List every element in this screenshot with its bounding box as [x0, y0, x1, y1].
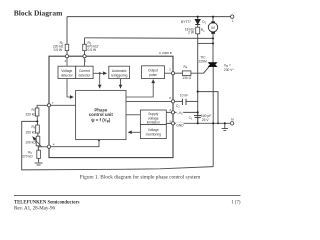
svg-text:4: 4 — [53, 142, 55, 146]
wire: chain top to pin 7 — [37, 105, 47, 108]
svg-text:Voltage: Voltage — [61, 69, 72, 73]
svg-text:BYT77: BYT77 — [181, 20, 191, 24]
resistor R3 470k — [83, 44, 87, 50]
block supply voltage limitation — [140, 110, 166, 125]
phase control unit text — [89, 107, 114, 123]
svg-text:retriggering: retriggering — [111, 73, 128, 77]
svg-text:8: 8 — [169, 96, 171, 100]
wire PCU to output pulse feedback — [126, 80, 153, 97]
svg-text:GND: GND — [176, 123, 184, 127]
block texts — [61, 69, 161, 137]
pin numbers — [52, 59, 172, 147]
svg-text:2 W: 2 W — [188, 31, 195, 35]
svg-text:C1: C1 — [189, 116, 193, 121]
wire: GND rail to N terminal — [175, 122, 231, 124]
pin 8 right C2 — [171, 100, 174, 103]
junction dot on detector wire — [99, 72, 101, 74]
wire: -Vs pin into supply box — [166, 111, 171, 113]
resistor R5 chain bottom — [37, 150, 41, 158]
wire: C-rail tap to N-branch — [198, 92, 218, 124]
svg-text:0.5 W: 0.5 W — [88, 48, 97, 52]
pin stub to voltage detector — [66, 58, 68, 66]
terminal L — [231, 15, 234, 18]
wire: R4 to triac gate — [191, 67, 209, 74]
svg-text:6: 6 — [170, 108, 172, 112]
potentiometer wiper arrow — [33, 137, 42, 147]
svg-text:R1: R1 — [201, 28, 205, 33]
wire left pin 7 into PCU — [51, 104, 76, 106]
IC internal wiring — [51, 58, 172, 147]
motor M — [208, 21, 217, 34]
svg-text:pulse: pulse — [149, 73, 157, 77]
svg-text:Block Diagram: Block Diagram — [14, 8, 63, 17]
svg-text:150 kΩ: 150 kΩ — [25, 130, 36, 134]
svg-text:ψ = f (Vφ): ψ = f (Vφ) — [91, 117, 111, 123]
svg-text:C2: C2 — [176, 104, 180, 109]
pin 3 top — [65, 55, 68, 58]
wire current detector to automatic retriggering — [93, 72, 107, 74]
pin 1 top — [83, 55, 86, 58]
wire: chain segment R6 to pot — [37, 133, 39, 136]
footer rule — [14, 194, 241, 196]
svg-text:detector: detector — [79, 73, 92, 77]
wire PCU to supply voltage limitation — [126, 114, 140, 116]
resistor R4 130R gate — [182, 71, 191, 76]
pin stub to current detector — [84, 58, 86, 66]
wire: R5 to ground — [38, 158, 40, 162]
wire: R1 bottom to motor node — [198, 42, 213, 44]
svg-text:Rev. A1, 28-May-96: Rev. A1, 28-May-96 — [14, 207, 56, 212]
wire: R1 down to C-rail and GND rail — [197, 34, 199, 124]
svg-text:R4: R4 — [184, 65, 188, 70]
wire: C2 right to C-rail — [186, 100, 198, 102]
label -Vs on wire — [177, 110, 184, 114]
svg-text:L: L — [232, 19, 234, 23]
svg-text:D1: D1 — [202, 20, 206, 25]
terminal N — [230, 122, 233, 125]
svg-text:10 nF: 10 nF — [180, 94, 188, 98]
pin 7 left — [47, 104, 50, 107]
IC U2008B outer box — [49, 56, 173, 157]
wire pin 4 up into PCU bottom — [51, 140, 99, 147]
wire: R3 bottom stub to pin — [84, 51, 86, 55]
diode D1 BYT77 — [195, 20, 200, 25]
svg-text:1: 1 — [85, 59, 87, 63]
resistor R2 220k — [35, 27, 199, 158]
svg-text:220 kΩ: 220 kΩ — [25, 112, 36, 116]
svg-text:U 2008 B: U 2008 B — [159, 51, 172, 55]
svg-text:N: N — [231, 117, 234, 121]
wire: D1 top stub — [197, 17, 199, 20]
label GND on wire — [176, 123, 184, 127]
resistor R1 18k — [196, 27, 200, 34]
svg-text:R6: R6 — [31, 125, 35, 130]
svg-text:M: M — [211, 25, 214, 30]
svg-text:Current: Current — [79, 69, 90, 73]
svg-text:230 V~: 230 V~ — [224, 68, 235, 72]
svg-text:0.5 W: 0.5 W — [54, 48, 63, 52]
ground symbol below R5 — [35, 163, 43, 165]
capacitor C2 10nF plates — [182, 99, 186, 105]
wire: C1 top stub — [197, 112, 199, 115]
svg-text:limitation: limitation — [147, 120, 160, 124]
wire: motor top stub — [212, 17, 214, 22]
svg-text:130 Ω: 130 Ω — [182, 76, 191, 80]
block voltage monitoring — [140, 125, 166, 139]
wire: pot bottom node — [38, 146, 47, 147]
wire PCU to C2 pin — [126, 100, 171, 102]
svg-text:2: 2 — [169, 68, 171, 72]
wire: bottom bus (slightly tilted scan) — [22, 121, 214, 169]
svg-text:5: 5 — [170, 119, 172, 123]
wire: R2 top branch — [66, 17, 68, 45]
block output pulse — [142, 66, 165, 79]
wire: chain segment R7 to R6 — [36, 116, 38, 125]
svg-text:1 (7): 1 (7) — [231, 201, 241, 206]
svg-text:detector: detector — [61, 73, 74, 77]
svg-text:25 V: 25 V — [202, 118, 210, 122]
svg-text:3: 3 — [64, 59, 66, 63]
svg-text:TELEFUNKEN Semiconductors: TELEFUNKEN Semiconductors — [14, 201, 80, 206]
wire: R3 vertical — [84, 38, 86, 44]
resistor R6 chain mid — [36, 125, 40, 133]
svg-text:Automatic: Automatic — [112, 69, 127, 73]
wire: ground stub at N — [224, 123, 226, 128]
wire: C2 pin wire — [175, 100, 183, 102]
block phase control unit — [76, 90, 126, 139]
svg-text:270 kΩ: 270 kΩ — [22, 155, 33, 159]
block automatic retriggering — [109, 66, 130, 78]
wire: -Vs pin to C1 — [175, 111, 198, 113]
pin 5 right GND — [171, 122, 174, 125]
wire: motor bottom to triac top — [212, 34, 214, 63]
IC pin circles — [47, 55, 174, 149]
capacitor C1 100uF plates — [194, 116, 201, 118]
wire: C1 bottom stub — [197, 118, 199, 124]
wire automatic retriggering down to PCU — [120, 79, 122, 89]
wire voltage detector down into PCU left — [67, 79, 73, 97]
wire: GND pin into box — [166, 122, 171, 124]
wire: R3 horizontal from motor node — [85, 37, 214, 40]
resistor R7 chain top — [35, 108, 39, 116]
ground symbol at N terminal — [222, 129, 228, 131]
block current detector — [76, 66, 93, 78]
wire: triac MT1 down across N wire to bottom bus — [212, 67, 214, 167]
triac TIC 226M — [209, 63, 217, 67]
potentiometer 100k body — [36, 136, 40, 146]
wire tap down into phase control unit — [99, 73, 101, 88]
svg-text:7: 7 — [52, 101, 54, 105]
pin 6 right -Vs — [171, 111, 174, 114]
pin 4 left — [47, 145, 50, 148]
wire: R2 bottom stub to pin — [66, 51, 68, 55]
svg-text:Output: Output — [148, 69, 158, 73]
wire: top mains L rail — [67, 16, 230, 18]
svg-text:Figure 1. Block diagram for s: Figure 1. Block diagram for simple phase… — [80, 174, 201, 181]
wire output pulse to pin 2 — [165, 72, 172, 74]
wire voltage monitoring arrow into PCU — [128, 131, 140, 133]
wire: diode to R1 — [197, 25, 199, 27]
wire: gate from pin 2 to R4 — [175, 72, 183, 74]
svg-text:monitoring: monitoring — [146, 133, 162, 137]
block voltage detector — [58, 66, 166, 140]
svg-text:100 kΩ: 100 kΩ — [25, 141, 36, 145]
svg-text:–VS: –VS — [177, 111, 183, 116]
svg-text:226M: 226M — [198, 60, 207, 64]
wire: pot node to R5 — [37, 147, 39, 150]
pin 2 right output — [171, 72, 174, 75]
